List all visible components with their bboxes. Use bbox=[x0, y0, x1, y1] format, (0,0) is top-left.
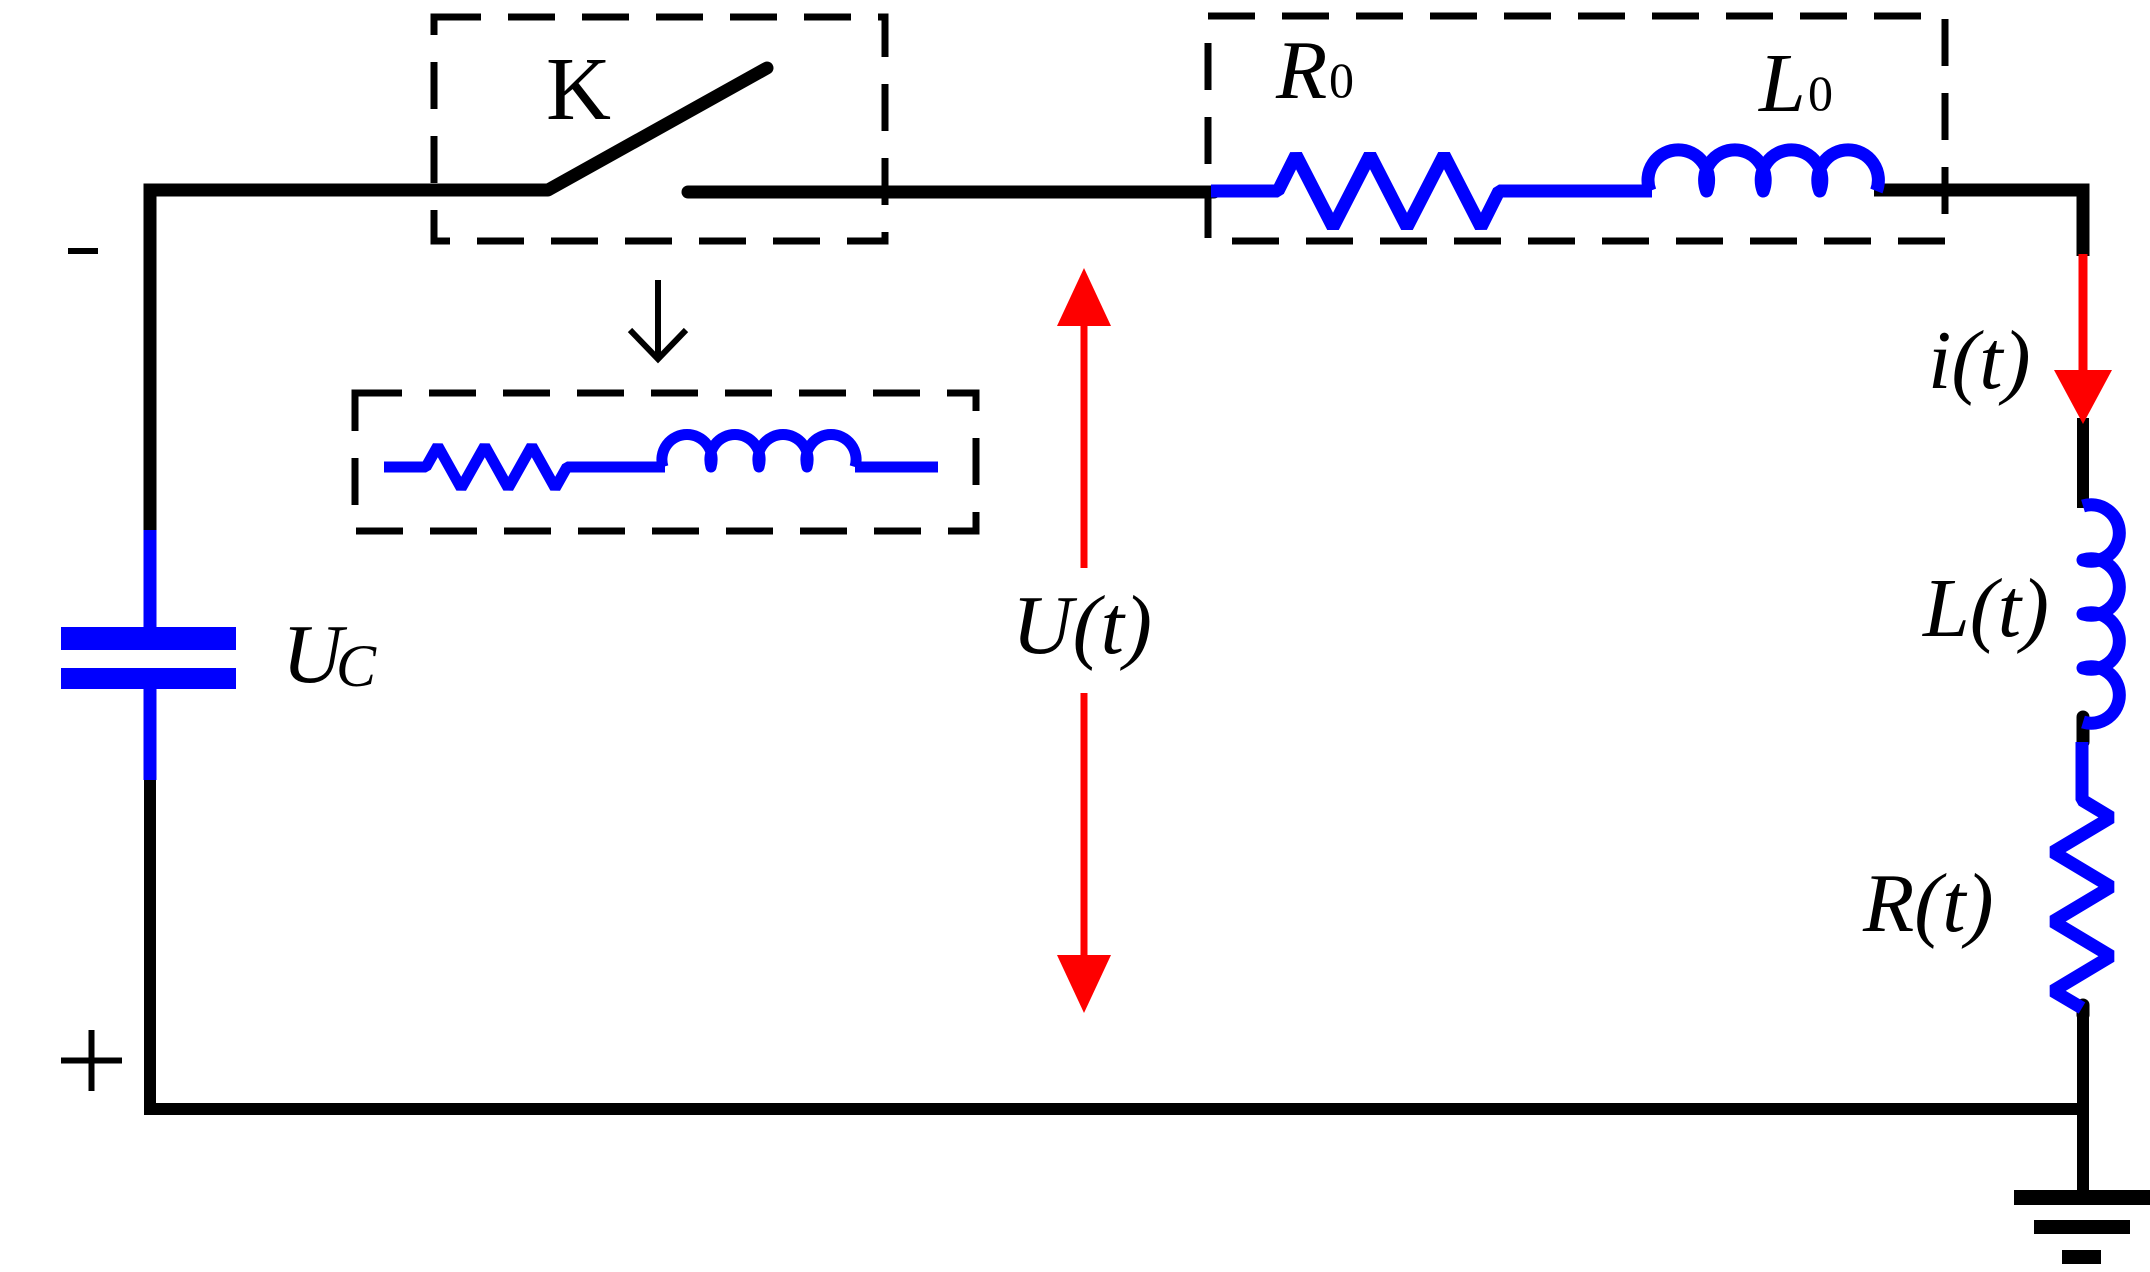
svg-text:R: R bbox=[1275, 24, 1327, 117]
svg-text:U(t): U(t) bbox=[1012, 579, 1152, 672]
svg-text:0: 0 bbox=[1329, 52, 1354, 108]
svg-text:0: 0 bbox=[1808, 65, 1833, 121]
svg-text:i(t): i(t) bbox=[1928, 314, 2031, 407]
svg-text:L: L bbox=[1758, 37, 1806, 130]
svg-text:R(t): R(t) bbox=[1862, 857, 1994, 950]
svg-text:L(t): L(t) bbox=[1922, 562, 2049, 655]
svg-text:K: K bbox=[546, 40, 611, 139]
svg-text:C: C bbox=[336, 633, 377, 699]
